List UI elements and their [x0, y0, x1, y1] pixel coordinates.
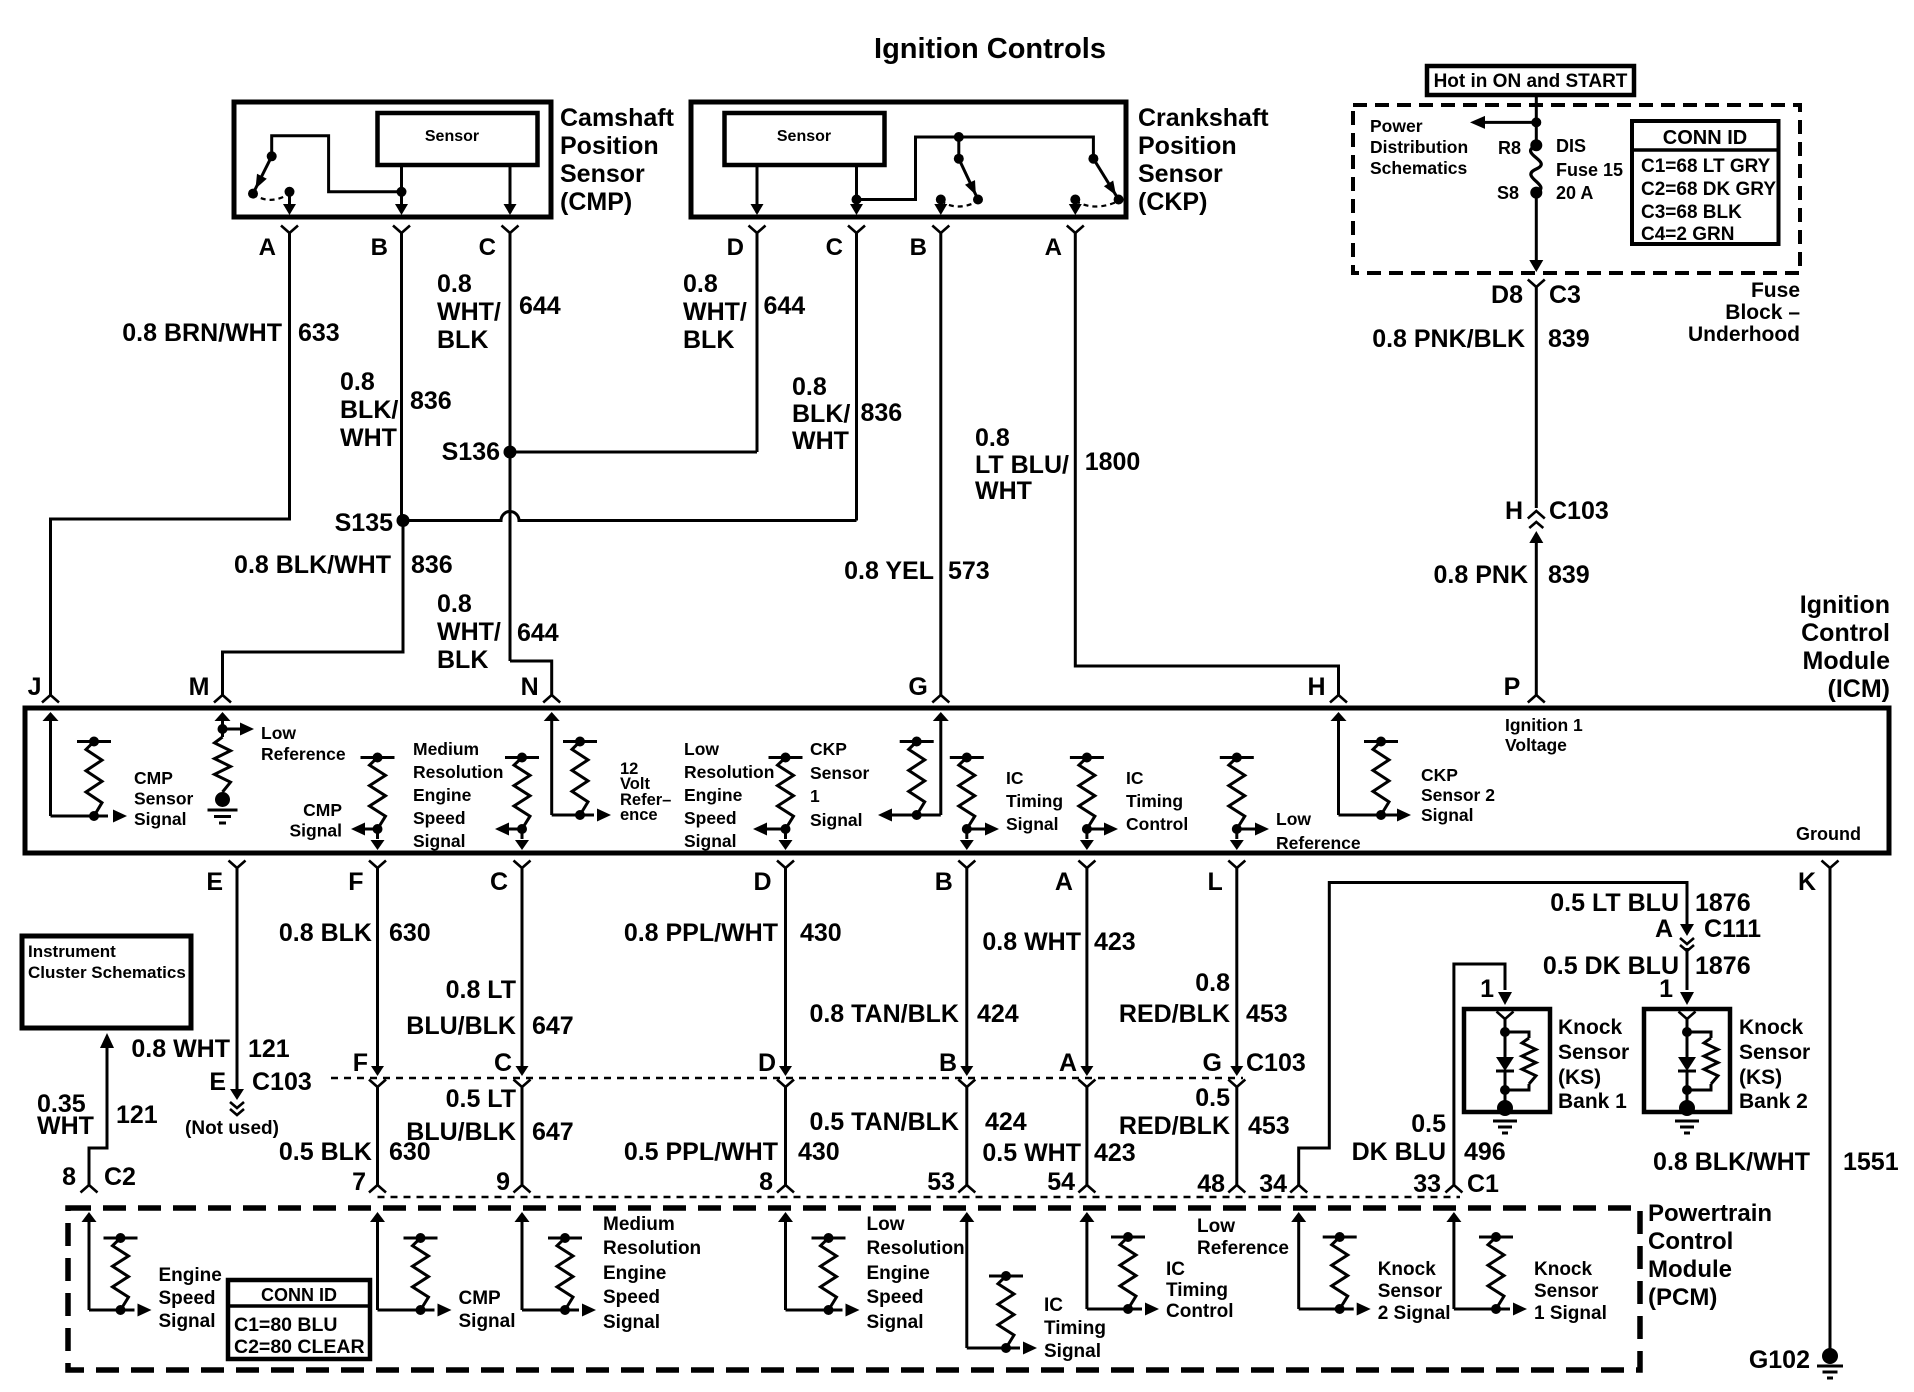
svg-text:Knock: Knock — [1739, 1016, 1804, 1039]
svg-text:C: C — [826, 234, 843, 261]
svg-text:DIS: DIS — [1556, 136, 1586, 156]
knock sensor Bank 2 resistor branch — [1687, 1032, 1711, 1038]
CKP internal switch feed wiring — [857, 137, 1094, 200]
svg-text:C1: C1 — [1467, 1170, 1499, 1198]
wire ICM B 0.8 TAN/BLK 424 — [965, 868, 968, 1071]
svg-text:0.8 YEL: 0.8 YEL — [844, 557, 934, 585]
ICM pin K connector — [1822, 861, 1839, 869]
svg-text:WHT/: WHT/ — [437, 298, 501, 326]
CKP pin C arrow — [855, 200, 858, 205]
svg-text:0.5 LT: 0.5 LT — [446, 1085, 516, 1113]
PCM resistor at pin 54 — [1111, 1236, 1145, 1239]
svg-text:A: A — [259, 234, 276, 261]
svg-text:WHT/: WHT/ — [437, 618, 501, 646]
svg-text:F: F — [348, 868, 363, 896]
wire 0.5 DK BLU 496 from PCM 33 to knock sensor 1 — [1454, 964, 1505, 1185]
svg-text:0.8: 0.8 — [975, 424, 1010, 452]
svg-text:839: 839 — [1548, 325, 1590, 353]
ICM pin G connector — [932, 695, 949, 703]
svg-text:E: E — [209, 1068, 226, 1096]
svg-text:644: 644 — [517, 619, 559, 647]
svg-text:1551: 1551 — [1843, 1148, 1899, 1176]
svg-text:424: 424 — [977, 1000, 1019, 1028]
svg-text:424: 424 — [985, 1108, 1027, 1136]
PCM pin 34 connector — [1290, 1185, 1307, 1193]
svg-text:DK BLU: DK BLU — [1352, 1138, 1446, 1166]
svg-text:WHT: WHT — [792, 427, 849, 455]
svg-text:Module: Module — [1803, 647, 1891, 675]
CKP switch 2 arm — [1093, 159, 1118, 200]
wire ICM A 0.8 WHT 423 — [1085, 868, 1088, 1071]
PCM pin 54 connector — [1078, 1185, 1095, 1193]
CMP pin B connector — [393, 226, 410, 234]
svg-text:E: E — [206, 868, 223, 896]
svg-text:53: 53 — [927, 1168, 955, 1196]
svg-text:1800: 1800 — [1085, 448, 1141, 476]
svg-text:0.8 PNK/BLK: 0.8 PNK/BLK — [1372, 325, 1525, 353]
CKP switch 2 dashed arc — [1075, 201, 1118, 207]
svg-text:1 Signal: 1 Signal — [1534, 1303, 1607, 1324]
PCM input at pin 54 — [1079, 1212, 1094, 1222]
CKP switch 2 contact — [1088, 154, 1098, 164]
knock sensor Bank 1 pin fork — [1497, 1012, 1514, 1020]
svg-text:D: D — [727, 234, 744, 261]
svg-text:Control: Control — [1166, 1301, 1234, 1322]
svg-text:CMP: CMP — [303, 800, 342, 820]
svg-text:Low: Low — [261, 723, 296, 743]
svg-text:0.5 BLK: 0.5 BLK — [279, 1138, 372, 1166]
svg-text:Control: Control — [1126, 814, 1188, 834]
svg-text:Block –: Block – — [1725, 301, 1800, 324]
svg-text:Resolution: Resolution — [867, 1238, 965, 1259]
svg-text:D: D — [753, 868, 771, 896]
svg-text:Control: Control — [1648, 1228, 1733, 1255]
svg-text:Signal: Signal — [1044, 1341, 1101, 1362]
svg-text:Powertrain: Powertrain — [1648, 1200, 1772, 1227]
CKP switch 1 stub — [957, 137, 960, 159]
ICM 12 Volt Reference at pin N — [544, 712, 560, 721]
svg-text:Signal: Signal — [810, 810, 863, 830]
svg-text:8: 8 — [62, 1163, 76, 1191]
ignition control module ICM box — [25, 708, 1889, 853]
wire 0.5 TAN/BLK 424 to PCM 53 — [965, 1086, 968, 1185]
svg-text:644: 644 — [764, 292, 806, 320]
CMP internal switch wiring — [272, 136, 402, 192]
ICM pin E connector — [229, 861, 246, 869]
svg-text:839: 839 — [1548, 561, 1590, 589]
ICM Low Reference at pin L — [1220, 756, 1254, 759]
svg-text:WHT: WHT — [340, 424, 397, 452]
powertrain control module PCM dashed box — [68, 1208, 1640, 1370]
svg-text:0.8 TAN/BLK: 0.8 TAN/BLK — [809, 1000, 959, 1028]
C103 pin A — [1080, 1066, 1093, 1076]
svg-text:Position: Position — [560, 132, 659, 160]
svg-text:Signal: Signal — [867, 1312, 924, 1333]
svg-text:Speed: Speed — [867, 1287, 924, 1308]
fuse block underhood dashed box — [1353, 105, 1800, 273]
ICM CKP Sensor 2 Signal at pin H — [1331, 712, 1347, 721]
svg-text:1: 1 — [1480, 975, 1494, 1003]
knock sensor KS Bank 1 box — [1464, 1009, 1550, 1112]
svg-text:9: 9 — [496, 1168, 510, 1196]
svg-text:48: 48 — [1197, 1170, 1225, 1198]
ICM resistor at pin G — [900, 740, 934, 743]
svg-text:Control: Control — [1801, 619, 1890, 647]
svg-text:Medium: Medium — [413, 739, 479, 759]
svg-text:BLU/BLK: BLU/BLK — [406, 1118, 516, 1146]
svg-text:Speed: Speed — [413, 808, 466, 828]
fuse F15 DIS 20A — [1530, 139, 1542, 151]
PCM input at pin 7 — [370, 1212, 385, 1222]
ICM IC Timing Signal at pin B — [950, 756, 984, 759]
svg-text:C2: C2 — [104, 1163, 136, 1191]
svg-text:Resolution: Resolution — [684, 762, 774, 782]
svg-text:C: C — [479, 234, 496, 261]
svg-text:C3=68 BLK: C3=68 BLK — [1641, 202, 1742, 223]
svg-text:Reference: Reference — [261, 744, 346, 764]
svg-text:Timing: Timing — [1126, 791, 1183, 811]
knock sensor Bank 2 internal wiring — [1686, 1019, 1689, 1057]
svg-text:S135: S135 — [335, 509, 393, 537]
ICM resistor at pin J — [77, 740, 111, 743]
svg-text:A: A — [1055, 868, 1073, 896]
svg-text:7: 7 — [352, 1168, 366, 1196]
connector A C111 — [1680, 924, 1694, 936]
svg-text:1876: 1876 — [1695, 889, 1751, 917]
wire 0.5 WHT 423 to PCM 54 — [1085, 1086, 1088, 1185]
svg-text:Timing: Timing — [1166, 1280, 1228, 1301]
svg-text:1: 1 — [1659, 975, 1673, 1003]
wire 0.5 RED/BLK 453 to PCM 48 — [1235, 1086, 1238, 1185]
PCM thin connector dashed line — [378, 1196, 1461, 1199]
wire 0.5 LT BLU/BLK 647 to PCM 9 — [521, 1086, 524, 1185]
svg-text:S8: S8 — [1497, 183, 1519, 203]
CKP switch 1 dashed arc — [941, 201, 978, 207]
CKP sensor internal wire to pin D — [756, 165, 759, 213]
Hot in ON and START box — [1427, 66, 1634, 95]
svg-text:Signal: Signal — [603, 1312, 660, 1333]
knock sensor KS Bank 2 box — [1644, 1009, 1730, 1112]
svg-text:54: 54 — [1047, 1168, 1075, 1196]
CKP pin D arrow — [751, 204, 764, 215]
svg-text:R8: R8 — [1498, 138, 1521, 158]
svg-text:836: 836 — [861, 399, 903, 427]
ICM resistor at pin H — [1364, 740, 1398, 743]
ICM CKP Sensor 1 Signal at pin G — [933, 712, 949, 721]
svg-text:Sensor: Sensor — [1739, 1041, 1810, 1064]
svg-text:Instrument: Instrument — [28, 942, 116, 961]
svg-text:Ground: Ground — [1796, 824, 1861, 844]
svg-text:0.8 BLK/WHT: 0.8 BLK/WHT — [1653, 1148, 1810, 1176]
PCM pin 48 connector — [1228, 1185, 1245, 1193]
svg-text:IC: IC — [1166, 1259, 1185, 1280]
svg-text:CMP: CMP — [459, 1288, 502, 1309]
svg-text:1876: 1876 — [1695, 952, 1751, 980]
svg-text:0.5 WHT: 0.5 WHT — [982, 1139, 1081, 1167]
wire CMP-C 0.8 WHT/BLK 644 upper segment — [509, 233, 512, 661]
CMP switch arm — [253, 156, 272, 193]
knock sensor Bank 2 pin fork — [1679, 1012, 1696, 1020]
svg-text:A: A — [1059, 1049, 1077, 1077]
svg-text:(KS): (KS) — [1558, 1066, 1601, 1089]
svg-text:573: 573 — [948, 557, 990, 585]
svg-text:647: 647 — [532, 1012, 574, 1040]
svg-text:Timing: Timing — [1006, 791, 1063, 811]
svg-text:A: A — [1045, 234, 1062, 261]
svg-text:Fuse 15: Fuse 15 — [1556, 160, 1623, 180]
svg-text:Module: Module — [1648, 1256, 1732, 1283]
CKP pin A connector — [1067, 226, 1084, 234]
svg-text:121: 121 — [116, 1101, 158, 1129]
ICM pin P connector — [1528, 695, 1545, 703]
CMP pin B arrow — [400, 192, 403, 204]
svg-text:C2=68 DK GRY: C2=68 DK GRY — [1641, 179, 1776, 200]
svg-text:(ICM): (ICM) — [1828, 675, 1890, 703]
svg-text:G: G — [908, 673, 927, 701]
svg-text:LT BLU/: LT BLU/ — [975, 451, 1069, 479]
ICM pin M connector — [214, 695, 231, 703]
knock sensor Bank 1 ground — [1497, 1100, 1513, 1116]
svg-text:Low: Low — [1197, 1216, 1235, 1237]
svg-text:BLK/: BLK/ — [340, 396, 398, 424]
svg-text:Signal: Signal — [159, 1311, 216, 1332]
svg-text:Signal: Signal — [1006, 814, 1059, 834]
splice S135 — [397, 514, 410, 527]
svg-text:836: 836 — [410, 387, 452, 415]
wire ICM L 0.8 RED/BLK 453 — [1235, 868, 1238, 1071]
svg-text:ence: ence — [620, 806, 658, 824]
svg-text:L: L — [1208, 868, 1223, 896]
svg-text:Voltage: Voltage — [1505, 735, 1567, 755]
svg-text:CKP: CKP — [1421, 765, 1458, 785]
svg-text:BLK/: BLK/ — [792, 400, 850, 428]
svg-text:Bank 2: Bank 2 — [1739, 1090, 1808, 1113]
svg-text:Low: Low — [867, 1214, 905, 1235]
svg-text:630: 630 — [389, 919, 431, 947]
svg-text:P: P — [1504, 673, 1521, 701]
svg-text:Reference: Reference — [1276, 833, 1361, 853]
svg-text:Hot in ON and START: Hot in ON and START — [1434, 71, 1628, 92]
svg-text:Sensor: Sensor — [560, 160, 645, 188]
CKP sensor internal wire to pin C — [855, 165, 858, 200]
PCM resistor at pin 33 — [1479, 1236, 1513, 1239]
ICM resistor at pin M — [215, 737, 231, 792]
svg-text:647: 647 — [532, 1118, 574, 1146]
PCM pin 33 connector — [1445, 1185, 1462, 1193]
ICM pin B connector — [958, 861, 975, 869]
svg-text:BLK: BLK — [437, 646, 488, 674]
svg-text:20 A: 20 A — [1556, 183, 1593, 203]
svg-text:Engine: Engine — [413, 785, 472, 805]
CMP internal sensor block — [378, 113, 538, 165]
svg-text:Sensor: Sensor — [1378, 1281, 1443, 1302]
wire 0.5 PPL/WHT 430 to PCM 8 — [784, 1086, 787, 1185]
svg-text:B: B — [935, 868, 953, 896]
branch arrow to power distribution — [1484, 121, 1536, 124]
svg-text:C: C — [494, 1049, 512, 1077]
CMP pin A arrow — [288, 192, 291, 204]
CKP pin B connector — [932, 226, 949, 234]
knock sensor Bank 1 resistor branch — [1505, 1032, 1529, 1038]
svg-text:RED/BLK: RED/BLK — [1119, 1000, 1230, 1028]
svg-text:(CMP): (CMP) — [560, 188, 632, 216]
wire ICM C 0.8 LT BLU/BLK 647 — [521, 868, 524, 1071]
knock sensor Bank 1 diode — [1496, 1057, 1514, 1071]
connector H C103 on pink wire — [1528, 511, 1545, 519]
svg-text:C3: C3 — [1549, 281, 1581, 309]
ICM CMP Sensor Signal input — [43, 712, 59, 721]
wire 0.35 WHT 121 from PCM 8 C2 to instrument cluster — [100, 1033, 114, 1048]
svg-text:0.8: 0.8 — [1195, 969, 1230, 997]
svg-text:(Not used): (Not used) — [185, 1118, 279, 1139]
PCM input at pin 34 — [1291, 1212, 1306, 1222]
svg-text:Sensor: Sensor — [810, 763, 870, 783]
ICM pin M ground — [215, 792, 230, 807]
svg-text:Signal: Signal — [134, 809, 187, 829]
svg-text:CONN ID: CONN ID — [261, 1285, 337, 1305]
PCM pin 53 connector — [958, 1185, 975, 1193]
svg-text:Camshaft: Camshaft — [560, 104, 675, 132]
ground G102 — [1822, 1348, 1838, 1364]
svg-text:Signal: Signal — [1421, 805, 1474, 825]
svg-text:C1=80 BLU: C1=80 BLU — [234, 1314, 338, 1336]
svg-text:Engine: Engine — [867, 1263, 930, 1284]
ICM Medium Resolution Engine Speed Signal at pin C — [505, 756, 539, 759]
CKP switch 1 arm — [959, 159, 978, 200]
svg-text:C103: C103 — [1246, 1049, 1306, 1077]
CKP pin D connector — [749, 226, 766, 234]
wire ICM K 0.8 BLK/WHT 1551 to G102 — [1829, 868, 1832, 1356]
svg-text:(CKP): (CKP) — [1138, 188, 1207, 216]
C103 pin C — [516, 1066, 529, 1076]
ICM pin J connector — [42, 695, 59, 703]
PCM resistor at pin 7 — [404, 1237, 438, 1240]
svg-text:A: A — [1655, 915, 1673, 943]
ICM pin M low reference to ground — [215, 712, 231, 721]
svg-text:BLU/BLK: BLU/BLK — [406, 1012, 516, 1040]
svg-text:CKP: CKP — [810, 739, 847, 759]
PCM CONN ID table — [228, 1280, 370, 1359]
svg-text:Knock: Knock — [1378, 1259, 1437, 1280]
ICM Low Resolution Engine Speed Signal at pin D — [769, 756, 803, 759]
svg-text:Sensor: Sensor — [1534, 1281, 1599, 1302]
PCM resistor at pin 53 — [989, 1275, 1023, 1278]
C103 connector row dashed line — [331, 1077, 1243, 1080]
svg-text:Ignition Controls: Ignition Controls — [874, 33, 1106, 65]
svg-text:121: 121 — [248, 1035, 290, 1063]
wire below S135 0.8 BLK/WHT 836 to ICM M — [223, 521, 404, 697]
wire CMP-C lower segment 0.8 WHT/BLK 644 to ICM N — [510, 661, 552, 696]
svg-text:423: 423 — [1094, 1139, 1136, 1167]
svg-text:Power: Power — [1370, 116, 1423, 136]
crankshaft position sensor CKP box — [691, 102, 1126, 217]
svg-text:Sensor: Sensor — [777, 128, 831, 145]
svg-text:0.5: 0.5 — [1195, 1084, 1230, 1112]
svg-text:N: N — [521, 673, 539, 701]
ICM pin A connector — [1078, 861, 1095, 869]
svg-text:D: D — [758, 1049, 776, 1077]
svg-text:Low: Low — [684, 739, 719, 759]
ICM pin C connector — [514, 861, 531, 869]
svg-text:Signal: Signal — [289, 821, 342, 841]
svg-text:(PCM): (PCM) — [1648, 1284, 1717, 1311]
svg-text:0.5 TAN/BLK: 0.5 TAN/BLK — [809, 1108, 959, 1136]
svg-text:Timing: Timing — [1044, 1318, 1106, 1339]
ICM IC Timing Control at pin A — [1070, 756, 1104, 759]
svg-text:IC: IC — [1126, 768, 1144, 788]
svg-text:Sensor: Sensor — [425, 128, 479, 145]
svg-text:33: 33 — [1413, 1170, 1441, 1198]
svg-text:0.8 PNK: 0.8 PNK — [1434, 561, 1528, 589]
wire CKP-A 0.8 LT BLU/WHT 1800 to ICM H — [1075, 233, 1338, 696]
svg-text:Resolution: Resolution — [603, 1238, 701, 1259]
CMP pin A connector — [281, 226, 298, 234]
svg-text:Position: Position — [1138, 132, 1237, 160]
svg-text:0.8 BLK/WHT: 0.8 BLK/WHT — [234, 551, 391, 579]
svg-text:B: B — [371, 234, 388, 261]
instrument cluster schematics box — [22, 936, 191, 1028]
ICM resistor at pin N — [563, 740, 597, 743]
svg-text:Signal: Signal — [413, 831, 466, 851]
wire CMP-B 0.8 BLK/WHT 836 to splice S135 — [400, 233, 403, 519]
PCM pin 8 C2 connector — [81, 1185, 98, 1193]
svg-text:Bank 1: Bank 1 — [1558, 1090, 1627, 1113]
wire CKP-C 0.8 BLK/WHT 836 down to S135 line — [855, 233, 858, 521]
svg-text:Engine: Engine — [159, 1265, 222, 1286]
svg-text:0.8: 0.8 — [437, 590, 472, 618]
svg-text:CONN ID: CONN ID — [1663, 127, 1747, 149]
wire from hot box down through fuse — [1535, 95, 1538, 145]
svg-text:0.5 LT BLU: 0.5 LT BLU — [1550, 889, 1679, 917]
svg-text:0.8 BRN/WHT: 0.8 BRN/WHT — [122, 319, 282, 347]
wire CMP-A 0.8 BRN/WHT 633 to ICM J — [51, 233, 290, 696]
svg-text:644: 644 — [519, 292, 561, 320]
S135 horizontal wire with hop over wire 644 — [403, 512, 857, 521]
svg-text:430: 430 — [798, 1138, 840, 1166]
svg-text:0.8 BLK: 0.8 BLK — [279, 919, 372, 947]
CKP internal sensor block — [725, 113, 885, 165]
wire ICM D 0.8 PPL/WHT 430 — [784, 868, 787, 1071]
svg-text:BLK: BLK — [437, 326, 488, 354]
svg-text:J: J — [28, 673, 42, 701]
svg-text:Medium: Medium — [603, 1214, 675, 1235]
PCM pin 7 connector — [369, 1185, 386, 1193]
svg-text:2 Signal: 2 Signal — [1378, 1303, 1451, 1324]
wire 0.8 PNK 839 to ICM P — [1535, 540, 1538, 696]
svg-text:Sensor: Sensor — [1558, 1041, 1629, 1064]
svg-text:Signal: Signal — [459, 1311, 516, 1332]
PCM input at pin 33 — [1446, 1212, 1461, 1222]
svg-text:Ignition 1: Ignition 1 — [1505, 715, 1583, 735]
svg-text:Ignition: Ignition — [1800, 591, 1890, 619]
svg-text:D8: D8 — [1491, 281, 1523, 309]
svg-text:633: 633 — [298, 319, 340, 347]
svg-text:WHT: WHT — [37, 1112, 94, 1140]
svg-text:G: G — [1203, 1049, 1222, 1077]
svg-text:0.5 PPL/WHT: 0.5 PPL/WHT — [624, 1138, 778, 1166]
svg-text:0.5: 0.5 — [1411, 1110, 1446, 1138]
ICM pin D connector — [777, 861, 794, 869]
svg-text:WHT/: WHT/ — [683, 298, 747, 326]
wire ICM E 0.8 WHT 121 not used — [236, 868, 239, 1095]
PCM resistor at pin 9 — [548, 1237, 582, 1240]
wire 0.5 LT BLU 1876 from PCM 34 to C111 — [1299, 883, 1687, 1186]
svg-text:0.8 PPL/WHT: 0.8 PPL/WHT — [624, 919, 778, 947]
CMP pin C arrow — [504, 204, 517, 215]
PCM pin 9 connector — [514, 1185, 531, 1193]
svg-text:0.8 WHT: 0.8 WHT — [982, 928, 1081, 956]
svg-text:1: 1 — [810, 786, 820, 806]
